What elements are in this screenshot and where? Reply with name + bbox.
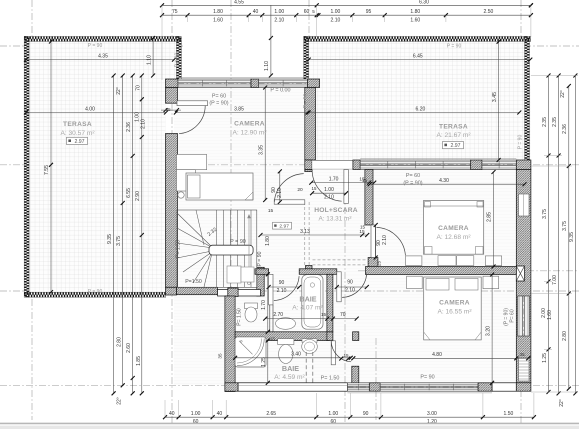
svg-text:P = 90: P = 90 xyxy=(447,44,462,50)
sink baie 4.59 xyxy=(302,339,317,343)
svg-text:1.25: 1.25 xyxy=(542,353,548,363)
level box hall xyxy=(273,222,292,229)
terrace right floor grid xyxy=(308,42,524,161)
desk camera 12.90 lower xyxy=(177,170,196,191)
svg-text:1.60: 1.60 xyxy=(213,18,223,24)
door D2 camera 12.90 to hall xyxy=(274,200,305,204)
sill line hall wall south face xyxy=(360,157,516,159)
svg-text:1.10: 1.10 xyxy=(146,55,152,65)
svg-text:A: 13.31 m²: A: 13.31 m² xyxy=(318,216,351,223)
svg-text:1.00: 1.00 xyxy=(274,9,284,15)
wall W10 pier xyxy=(369,383,380,391)
window north camera 12.90 left xyxy=(178,79,251,88)
dim 1.10 vertical right of 4.55 xyxy=(270,38,272,76)
centerline horizontal y=46 xyxy=(0,45,183,47)
svg-text:CAMERA: CAMERA xyxy=(234,121,265,128)
svg-text:5: 5 xyxy=(312,9,315,14)
staircase xyxy=(177,210,257,287)
dim 6.20 terrace right xyxy=(309,112,520,114)
svg-text:A: 4.59 m²: A: 4.59 m² xyxy=(274,374,305,381)
svg-text:P = 90: P = 90 xyxy=(230,239,246,245)
svg-text:3.75: 3.75 xyxy=(562,221,568,231)
wall W2 pier 2 xyxy=(471,160,482,170)
svg-text:A: 12.90 m²: A: 12.90 m² xyxy=(232,130,267,137)
svg-text:TERASA: TERASA xyxy=(439,124,468,131)
door D1 terrace to camera 12.90 xyxy=(177,101,208,106)
dim niche 1.70 vertical xyxy=(267,274,269,332)
door D6 wc niche xyxy=(269,274,273,305)
svg-text:1.00: 1.00 xyxy=(191,411,201,417)
wall W2 pier xyxy=(353,160,360,170)
dim 2.70 70 line xyxy=(265,318,357,320)
window south small xyxy=(347,383,369,391)
stair landing band xyxy=(218,290,261,297)
wall baie407 east xyxy=(327,274,333,332)
svg-text:2.97: 2.97 xyxy=(74,139,84,145)
door D7 baie 4.59 xyxy=(331,341,335,365)
dim right extension lines xyxy=(531,75,578,77)
wall W6 bathroom north xyxy=(235,332,329,341)
svg-text:1.25: 1.25 xyxy=(261,357,267,367)
dim 4.00 terrace left xyxy=(26,112,166,114)
dim door D4 90 210 rotated xyxy=(375,225,377,258)
dim camera 12.68 2.85 vertical xyxy=(493,172,495,267)
wall W4 stair south xyxy=(166,287,177,295)
svg-text:2.10: 2.10 xyxy=(277,288,287,294)
dim baie 3.40 xyxy=(235,357,351,359)
dim hall 3.13 xyxy=(261,234,368,236)
svg-text:1.85: 1.85 xyxy=(136,356,142,366)
svg-text:90: 90 xyxy=(279,280,285,286)
wall W1 corner east xyxy=(308,79,320,88)
svg-text:15: 15 xyxy=(343,353,349,358)
svg-text:4.00: 4.00 xyxy=(85,107,95,113)
svg-text:22°: 22° xyxy=(560,90,566,98)
svg-text:A: 16.55 m²: A: 16.55 m² xyxy=(437,309,472,316)
svg-text:CAMERA: CAMERA xyxy=(438,225,469,232)
dim camera 12.68 4.30 xyxy=(370,183,525,185)
svg-text:3.35: 3.35 xyxy=(258,145,264,155)
svg-text:2.36: 2.36 xyxy=(562,124,568,134)
centerline horizontal y=385.3 xyxy=(0,384,579,386)
svg-text:70: 70 xyxy=(340,312,346,318)
svg-text:2.65: 2.65 xyxy=(266,411,276,417)
svg-text:22°: 22° xyxy=(116,87,122,95)
window W2 band short xyxy=(482,160,516,170)
wall W10 plain band east xyxy=(492,383,516,391)
dim 6.45 terrace right xyxy=(309,59,531,61)
stair handrail xyxy=(209,245,253,255)
dim bottom row xyxy=(165,416,534,418)
svg-text:15: 15 xyxy=(359,229,365,235)
svg-text:P= 1.50: P= 1.50 xyxy=(176,240,182,258)
svg-text:22°: 22° xyxy=(559,399,565,407)
svg-text:1.60: 1.60 xyxy=(547,310,553,320)
wall W10 corner east block xyxy=(516,383,531,391)
svg-text:2.36: 2.36 xyxy=(126,122,132,132)
centerline horizontal y=164.8 xyxy=(0,164,579,166)
stair void dashed lines xyxy=(304,202,306,267)
wall W10 plain band west xyxy=(238,383,347,391)
dim camera 12.90 3.35 vertical xyxy=(264,88,266,201)
svg-text:2.97: 2.97 xyxy=(450,143,460,149)
wall W2 threshold over terrace door xyxy=(312,160,353,170)
french door P=0.00 band xyxy=(259,79,308,88)
svg-text:1.00: 1.00 xyxy=(324,187,334,193)
dim door D6 90 210 xyxy=(269,286,300,288)
bed camera 16.55 xyxy=(424,277,482,340)
bed camera 12.68 xyxy=(424,201,484,255)
wall W8 hall east upper xyxy=(365,170,373,226)
svg-text:HOL+SCARA: HOL+SCARA xyxy=(314,207,358,214)
svg-text:P= 1.50: P= 1.50 xyxy=(321,375,340,381)
dim group left terrace verticals xyxy=(113,76,115,394)
svg-text:P= 1.50: P= 1.50 xyxy=(236,308,242,326)
svg-text:15: 15 xyxy=(270,337,276,342)
svg-text:25: 25 xyxy=(377,261,382,267)
svg-text:3.75: 3.75 xyxy=(116,236,122,246)
wall W10 pier 2 xyxy=(478,383,492,391)
svg-text:3.40: 3.40 xyxy=(291,352,301,358)
sill line south wall xyxy=(347,392,492,394)
svg-text:2.80: 2.80 xyxy=(116,337,122,347)
svg-text:P = 0.00: P = 0.00 xyxy=(270,88,290,94)
dim right column lines xyxy=(548,76,550,393)
dim 1.10 vertical terrace left xyxy=(152,38,154,76)
sill line north wall xyxy=(178,76,308,78)
svg-text:P=1.50: P=1.50 xyxy=(185,279,202,285)
window bottom bar xyxy=(0,423,579,429)
svg-text:6.30: 6.30 xyxy=(419,0,429,5)
svg-text:3.13: 3.13 xyxy=(300,229,310,235)
shaft dashed lines baie 4.59 xyxy=(305,352,307,383)
dim camera 12.90 3.85 xyxy=(176,112,308,114)
centerline horizontal y=82.8 wall axis xyxy=(150,82,332,84)
svg-text:15: 15 xyxy=(360,225,366,230)
svg-text:2.10: 2.10 xyxy=(277,188,283,198)
terrace right parapet top xyxy=(304,36,531,39)
svg-text:2.70: 2.70 xyxy=(273,312,283,318)
centerline vertical x=231 xyxy=(230,0,232,298)
level box terasa right xyxy=(443,142,464,149)
wall pier W1 middle xyxy=(251,79,259,88)
wall W1 north wall camera 12.90 xyxy=(166,79,179,88)
nightstand camera 16.55 right xyxy=(483,276,499,289)
door D5 hall to camera 16.55 xyxy=(337,272,341,302)
bed camera 12.90 xyxy=(186,173,253,200)
svg-text:95: 95 xyxy=(366,9,372,15)
svg-text:60: 60 xyxy=(304,9,310,15)
centerline horizontal y=291 xyxy=(0,290,579,292)
dim 3.45 terrace right vertical xyxy=(498,42,500,160)
window south large xyxy=(380,383,478,391)
svg-text:2.50: 2.50 xyxy=(484,9,494,15)
dim hall door 1.70 15 xyxy=(311,182,374,184)
svg-text:6.20: 6.20 xyxy=(416,107,426,113)
svg-text:1.50: 1.50 xyxy=(504,411,514,417)
svg-text:35: 35 xyxy=(519,352,525,358)
wall W2 hall north corner west xyxy=(305,160,312,170)
svg-text:9.35: 9.35 xyxy=(107,234,113,244)
svg-text:4.30: 4.30 xyxy=(439,178,449,184)
wall corner baie407 east bottom xyxy=(327,332,333,341)
door D4 hall to camera 12.68 xyxy=(371,225,375,258)
svg-text:P= 60: P= 60 xyxy=(510,309,516,322)
terrace left parapet west xyxy=(24,36,27,297)
svg-text:15: 15 xyxy=(312,186,317,191)
svg-text:P = 90: P = 90 xyxy=(88,289,103,295)
dim 7.55 terrace left vertical xyxy=(50,42,52,293)
svg-text:1.80: 1.80 xyxy=(213,9,223,15)
svg-text:2.97: 2.97 xyxy=(279,224,289,230)
svg-text:2.10: 2.10 xyxy=(141,119,147,129)
centerline vertical x=345 xyxy=(344,155,346,424)
wall W5 west bathroom wall xyxy=(225,296,235,392)
window niche east wall lower xyxy=(519,358,530,381)
terrace left parapet south xyxy=(24,292,166,295)
stool camera 12.90 xyxy=(178,192,184,198)
desk camera 12.90 upper xyxy=(177,155,207,170)
centerline horizontal y=270.8 xyxy=(358,270,579,272)
svg-text:9.35: 9.35 xyxy=(569,232,575,242)
nightstand camera 12.68 right xyxy=(485,256,501,266)
svg-text:2.10: 2.10 xyxy=(382,235,388,245)
svg-text:1.70: 1.70 xyxy=(329,176,339,182)
wall niche top band east xyxy=(299,269,337,275)
terrace left parapet top xyxy=(24,36,181,39)
dim camera 16.55 4.80 xyxy=(353,357,516,359)
shower baie 4.59 xyxy=(235,337,266,367)
nightstand camera 12.68 left xyxy=(406,256,422,266)
svg-text:1.00: 1.00 xyxy=(328,411,338,417)
svg-text:BAIE: BAIE xyxy=(282,364,299,373)
wall east of camera 12.90 to terrace xyxy=(305,88,316,161)
wall W3 west wall segment above door xyxy=(166,88,178,104)
svg-text:P= 90: P= 90 xyxy=(420,375,434,381)
centerline vertical x=32 xyxy=(31,0,33,420)
svg-text:(P = 90): (P = 90) xyxy=(503,308,509,326)
svg-text:A: 30.57 m²: A: 30.57 m² xyxy=(60,130,95,137)
svg-text:20: 20 xyxy=(297,187,303,193)
svg-text:P= 60: P= 60 xyxy=(212,94,226,100)
svg-text:7.00: 7.00 xyxy=(552,275,558,285)
wall W10 south corner west block xyxy=(225,383,238,391)
svg-text:40: 40 xyxy=(217,411,223,417)
svg-text:P = 90: P = 90 xyxy=(257,251,263,266)
wall W9 east wall xyxy=(516,170,531,383)
svg-text:2.10: 2.10 xyxy=(331,18,341,24)
wall W8 south block xyxy=(368,258,378,269)
window niche east wall upper xyxy=(519,194,530,216)
svg-text:90: 90 xyxy=(347,280,353,286)
centerline vertical x=521 xyxy=(520,0,522,424)
svg-text:3.45: 3.45 xyxy=(492,92,498,102)
dim 1.25 baie east xyxy=(267,341,269,383)
dim top row2 left xyxy=(162,14,317,16)
wall pier hall west xyxy=(306,266,313,273)
dim bottom extension lines xyxy=(164,400,166,417)
svg-text:2.90: 2.90 xyxy=(135,191,141,201)
svg-text:7.55: 7.55 xyxy=(44,165,50,175)
svg-text:15: 15 xyxy=(362,178,368,184)
centerline vertical x=309 xyxy=(308,0,310,169)
svg-text:40: 40 xyxy=(169,411,175,417)
svg-text:2.85: 2.85 xyxy=(487,212,493,222)
svg-text:2.10: 2.10 xyxy=(324,195,334,201)
bathtub baie 4.07 xyxy=(302,275,323,330)
svg-text:1.80: 1.80 xyxy=(265,236,271,246)
svg-text:2.10: 2.10 xyxy=(345,287,355,293)
floor texture house interior xyxy=(174,85,531,385)
svg-text:1.80: 1.80 xyxy=(410,9,420,15)
wall block stair south mid xyxy=(228,288,238,297)
svg-text:40: 40 xyxy=(253,9,259,15)
svg-text:3.20: 3.20 xyxy=(485,326,491,336)
svg-text:P= 60: P= 60 xyxy=(406,173,420,179)
svg-text:90: 90 xyxy=(363,411,369,417)
svg-text:2.80: 2.80 xyxy=(562,331,568,341)
centerline vertical x=376 xyxy=(375,338,377,420)
dim hall door 1.00 2.10 xyxy=(312,192,346,194)
window W2 band long xyxy=(360,160,471,170)
svg-text:CAMERA: CAMERA xyxy=(439,300,470,307)
partition wall niche to baie 4.07 xyxy=(269,305,271,332)
wall stub below W2 corner xyxy=(305,170,312,172)
dim door D2 90 210 rotated xyxy=(279,171,281,202)
sink baie 4.07 xyxy=(276,318,296,330)
wall W2 corner east xyxy=(516,160,531,170)
dim camera 16.55 3.20 vertical xyxy=(491,275,493,383)
door D3 hall to terrace xyxy=(344,170,348,204)
dim top row1 6.30 xyxy=(530,4,532,6)
nightstand camera 16.55 left xyxy=(407,276,423,289)
toilet wc niche xyxy=(245,303,258,309)
svg-text:3.00: 3.00 xyxy=(427,411,437,417)
stair walk line arrow xyxy=(248,218,250,283)
level box terasa left xyxy=(67,137,88,144)
svg-text:2.35: 2.35 xyxy=(552,117,558,127)
dim extension lines top xyxy=(161,5,163,80)
svg-text:2.60: 2.60 xyxy=(126,343,132,353)
dim 4.35 terrace left xyxy=(26,59,174,61)
svg-text:70: 70 xyxy=(135,85,141,91)
svg-text:(P = 90): (P = 90) xyxy=(403,181,422,187)
dim top row1 4.55 xyxy=(162,4,317,6)
svg-text:75: 75 xyxy=(172,9,178,15)
svg-text:22°: 22° xyxy=(117,397,123,405)
svg-text:2.10: 2.10 xyxy=(274,18,284,24)
cabinet boxes hall xyxy=(227,266,241,283)
svg-text:TERASA: TERASA xyxy=(63,121,92,128)
svg-text:A: 4.07 m²: A: 4.07 m² xyxy=(292,305,323,312)
svg-text:2.35: 2.35 xyxy=(542,117,548,127)
dim top row2 right xyxy=(318,14,531,16)
svg-text:1.10: 1.10 xyxy=(264,61,270,71)
svg-text:15: 15 xyxy=(268,208,274,214)
svg-text:6.45: 6.45 xyxy=(413,54,423,60)
svg-text:P = 90: P = 90 xyxy=(303,94,309,109)
toilet baie 4.59 xyxy=(278,339,294,345)
chimney block east wall xyxy=(516,266,524,281)
svg-text:1.60: 1.60 xyxy=(410,18,420,24)
svg-text:1.00: 1.00 xyxy=(331,9,341,15)
wall stair east block xyxy=(257,267,264,296)
svg-text:15: 15 xyxy=(321,312,327,317)
terrace right parapet east xyxy=(524,36,527,160)
svg-text:3.85: 3.85 xyxy=(234,106,244,112)
wall jamb baie east lower xyxy=(352,366,359,383)
svg-text:(P = 90): (P = 90) xyxy=(209,101,228,107)
window niche east wall xyxy=(518,296,530,336)
svg-text:6.55: 6.55 xyxy=(126,188,132,198)
terrace left floor grid xyxy=(29,42,177,80)
svg-text:35: 35 xyxy=(217,353,222,359)
svg-text:A: 21.67 m²: A: 21.67 m² xyxy=(436,132,471,139)
svg-text:1.70: 1.70 xyxy=(261,300,267,310)
svg-text:BAIE: BAIE xyxy=(299,295,316,304)
terrace right parapet west xyxy=(304,36,307,80)
wall W6 jamb east xyxy=(353,332,359,341)
wall W7 divider camera rooms xyxy=(366,267,517,275)
dim door D5 90 210 xyxy=(337,286,367,288)
svg-text:3.75: 3.75 xyxy=(542,209,548,219)
centerline vertical x=172 xyxy=(171,0,173,424)
wall W3 west wall below door xyxy=(166,134,178,288)
svg-text:P = 90: P = 90 xyxy=(175,53,181,68)
svg-text:4.80: 4.80 xyxy=(432,352,442,358)
wall niche top band west xyxy=(255,269,269,275)
terrace left parapet east xyxy=(176,36,179,79)
svg-text:P = 90: P = 90 xyxy=(88,43,103,49)
svg-text:4.35: 4.35 xyxy=(98,54,108,60)
svg-text:A: 12.68 m²: A: 12.68 m² xyxy=(436,234,471,241)
svg-text:4.55: 4.55 xyxy=(234,0,244,5)
svg-text:P = 90: P = 90 xyxy=(518,135,524,150)
